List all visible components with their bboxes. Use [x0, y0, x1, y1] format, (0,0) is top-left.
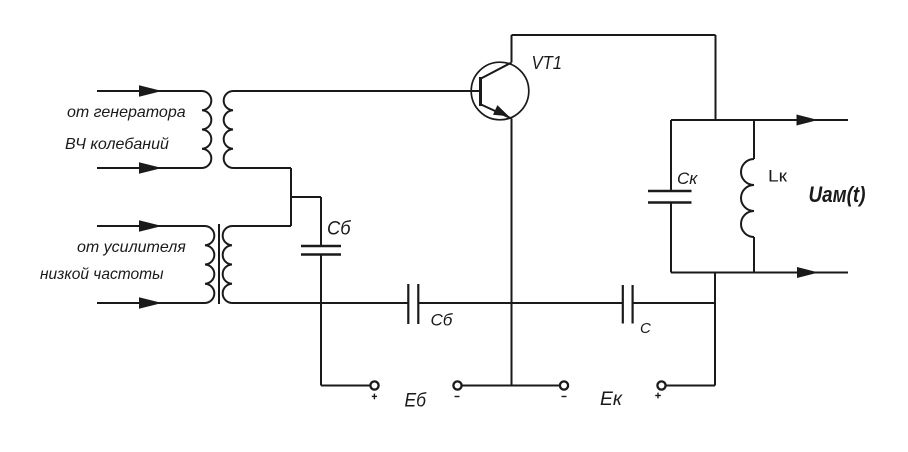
svg-text:низкой частоты: низкой частоты: [40, 266, 164, 283]
svg-text:Ек: Ек: [600, 389, 623, 410]
svg-text:от генератора: от генератора: [67, 104, 186, 121]
svg-text:Ск: Ск: [677, 169, 698, 188]
svg-text:Сб: Сб: [431, 311, 454, 330]
svg-text:VT1: VT1: [532, 53, 563, 73]
svg-text:от усилителя: от усилителя: [77, 239, 186, 256]
svg-text:Lк: Lк: [768, 167, 788, 186]
svg-text:Сб: Сб: [327, 219, 352, 240]
svg-text:Еб: Еб: [405, 391, 428, 412]
svg-text:ВЧ колебаний: ВЧ колебаний: [65, 136, 169, 153]
svg-text:C: C: [640, 320, 651, 337]
svg-text:Uам(t): Uам(t): [809, 182, 866, 207]
